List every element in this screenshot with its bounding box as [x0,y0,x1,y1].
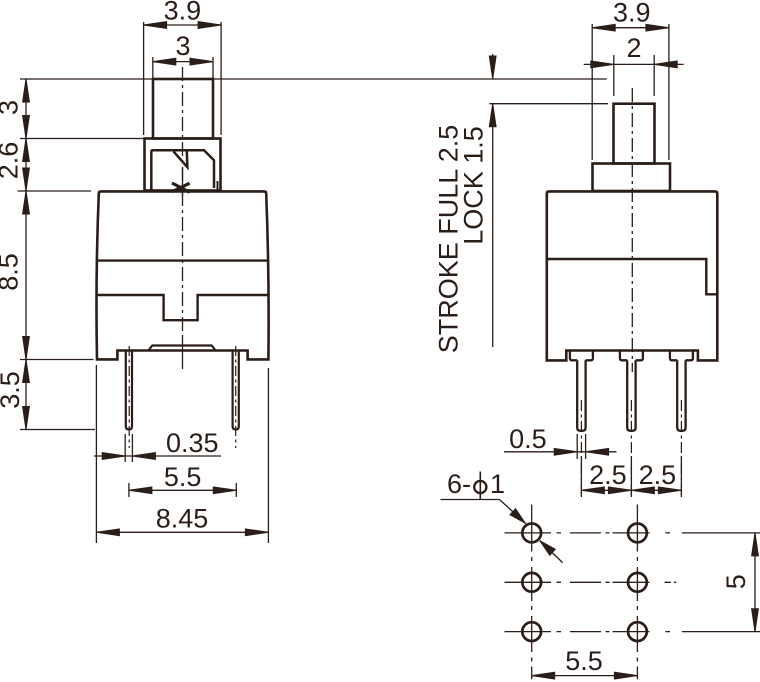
collar inner outline [151,150,214,190]
svg-text:3.9: 3.9 [164,0,202,26]
reference line at free-position shaft top [20,78,607,80]
hole column centerline 1 [531,505,533,680]
body seam line [96,259,268,261]
svg-text:3.9: 3.9 [613,0,651,28]
pin front-right [233,351,239,430]
pin 3 centerline [680,400,682,497]
boss pin 2 [620,351,643,361]
hole A2 [628,524,647,543]
shaft side view [614,104,655,164]
svg-text:2: 2 [626,33,641,63]
hole A1 [522,524,541,543]
hole B2 [628,573,647,592]
hole row centerline 1 [505,532,760,534]
left chain arrows [23,79,30,102]
pin 1 centerline [580,400,582,497]
bottom plate [149,346,215,351]
svg-text:2.6: 2.6 [0,142,24,180]
svg-text:8.5: 8.5 [0,253,24,291]
centerline front view [182,67,184,338]
dimension 2.5 2.5 [581,456,681,497]
label 6-phi1 leader [441,500,563,563]
dimension 5.5 bottom [532,675,638,677]
pin front-left [126,351,132,430]
body seam line 2 with notch [96,295,268,320]
left dimension chain ticks [18,79,144,430]
dimension 8.45 [96,365,268,543]
shaft front view [153,79,213,139]
pin 3 [677,360,685,431]
body side view [547,191,718,360]
pin 2 centerline [630,400,632,497]
dimension 0.5 [504,434,617,459]
hole C1 [522,622,541,641]
dimension 0.35 [94,434,221,462]
svg-text:3: 3 [175,31,190,61]
svg-text:5: 5 [721,574,751,589]
svg-text:8.45: 8.45 [156,504,209,534]
hole row centerline 3 [505,631,760,633]
svg-text:3: 3 [0,100,24,115]
dimension 2 side [584,55,684,96]
svg-text:0.5: 0.5 [509,424,547,454]
centerline front view solid segments [182,168,184,369]
svg-text:1: 1 [490,469,505,499]
reference line at locked shaft top (right view) [489,103,608,105]
svg-text:2.5: 2.5 [589,460,627,490]
svg-text:5.5: 5.5 [565,646,603,676]
svg-text:LOCK 1.5: LOCK 1.5 [459,126,489,245]
svg-text:2.5: 2.5 [639,460,677,490]
boss pin 1 [570,351,593,361]
dimension 3.9 side [592,24,669,160]
dimension 5.5 front [129,483,236,497]
collar front view [145,139,221,191]
dimension 3.9 front [144,22,222,135]
pin front-left centerline [128,346,130,448]
hole row centerline 2 [505,581,677,583]
pin 2 [627,360,635,431]
stroke dimension leader [492,54,494,347]
pin front-right centerline [235,346,237,448]
svg-text:3.5: 3.5 [0,371,25,409]
pin 1 [577,360,585,431]
boss pin 3 [670,351,693,361]
body front view [96,191,268,359]
collar side view [593,164,671,192]
svg-text:0.35: 0.35 [166,428,219,458]
body seam side with step [547,259,718,294]
hole B1 [522,573,541,592]
dimension 3 front [153,57,213,78]
cam notch V [174,151,188,167]
centerline side view [631,88,633,372]
svg-text:6-: 6- [447,469,471,499]
dimension 5 [754,533,756,632]
collar inner right stub [217,181,219,190]
travel X mark [172,183,190,192]
hole C2 [628,622,647,641]
hole column centerline 2 [636,505,638,680]
svg-text:5.5: 5.5 [164,462,202,492]
